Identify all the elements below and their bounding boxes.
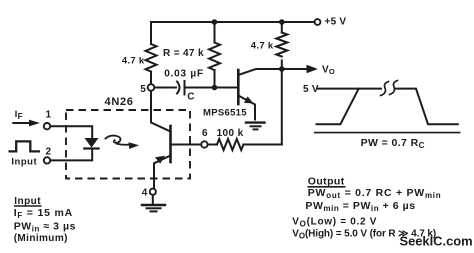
svg-text:VO: VO (322, 65, 335, 77)
svg-text:4: 4 (142, 188, 148, 199)
svg-text:PWmin = PWin + 6 µs: PWmin = PWin + 6 µs (305, 200, 415, 213)
svg-text:4N26: 4N26 (105, 96, 134, 108)
svg-text:IF: IF (15, 109, 23, 121)
svg-text:IF = 15 mA: IF = 15 mA (14, 207, 73, 220)
svg-text:0.03 µF: 0.03 µF (164, 69, 204, 80)
svg-text:PWin ≈ 3 µs: PWin ≈ 3 µs (14, 221, 76, 234)
svg-text:VO(Low) = 0.2 V: VO(Low) = 0.2 V (292, 216, 377, 228)
svg-text:5 V: 5 V (303, 84, 319, 95)
svg-text:(Minimum): (Minimum) (14, 233, 68, 244)
svg-text:1: 1 (46, 110, 52, 121)
svg-text:2: 2 (46, 147, 52, 158)
svg-text:PW = 0.7 RC: PW = 0.7 RC (361, 137, 425, 150)
svg-text:PWout = 0.7 RC + PWmin: PWout = 0.7 RC + PWmin (308, 187, 442, 200)
svg-text:4.7 k: 4.7 k (122, 55, 145, 66)
svg-text:4.7 k: 4.7 k (251, 40, 274, 51)
svg-text:MPS6515: MPS6515 (203, 108, 247, 119)
svg-text:Output: Output (308, 176, 345, 188)
svg-text:6: 6 (202, 128, 208, 139)
svg-text:Input: Input (11, 157, 37, 168)
svg-text:C: C (187, 92, 194, 103)
svg-text:100 k: 100 k (217, 128, 244, 139)
svg-text:+5 V: +5 V (325, 17, 347, 28)
svg-text:5: 5 (140, 84, 146, 95)
svg-text:R = 47 k: R = 47 k (163, 48, 204, 59)
svg-text:SeekIC.com: SeekIC.com (400, 233, 473, 248)
